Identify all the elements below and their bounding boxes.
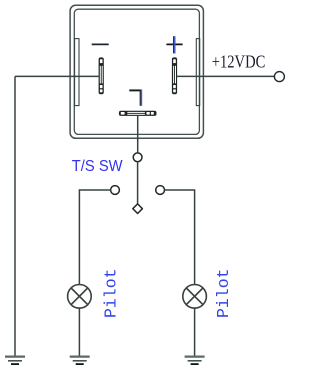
flasher relay inner case [74, 9, 199, 134]
right mounting tab [196, 39, 199, 106]
terminal blade load (bottom, horizontal) [119, 111, 157, 116]
wire: switch pole arm [137, 162, 139, 204]
svg-text:T/S SW: T/S SW [72, 158, 123, 175]
minus polarity mark [92, 43, 109, 45]
left mounting tab [75, 39, 79, 106]
plus polarity mark [166, 36, 182, 53]
flasher relay outer case [70, 5, 203, 138]
switch pole node circle [133, 153, 142, 162]
ground symbol left lamp [70, 357, 90, 365]
right pilot lamp [183, 285, 207, 309]
svg-text:Pilot: Pilot [214, 268, 233, 318]
svg-text:Pilot: Pilot [102, 268, 121, 318]
+12VDC terminal circle [274, 72, 284, 82]
terminal blade negative (left) [99, 57, 104, 94]
left pilot lamp [68, 285, 92, 309]
wire: left contact to left lamp [79, 190, 110, 285]
wire: minus blade to left rail [15, 75, 99, 77]
wire: plus blade to +12VDC terminal [177, 75, 275, 77]
wire: right lamp to ground [194, 308, 196, 356]
wire: load blade down to switch pole [137, 115, 139, 153]
terminal blade positive (right) [172, 57, 177, 94]
wire: left lamp to ground [78, 308, 80, 356]
load pin marker (corner mark) [129, 90, 141, 106]
ground symbol left rail [5, 357, 25, 365]
wire: left rail down to ground [14, 76, 16, 356]
switch left contact circle [111, 186, 120, 195]
switch pole end diamond [133, 204, 143, 214]
ground symbol right lamp [185, 357, 205, 365]
switch right contact circle [156, 186, 165, 195]
svg-text:+12VDC: +12VDC [212, 52, 265, 72]
wire: right contact to right lamp [165, 190, 195, 285]
